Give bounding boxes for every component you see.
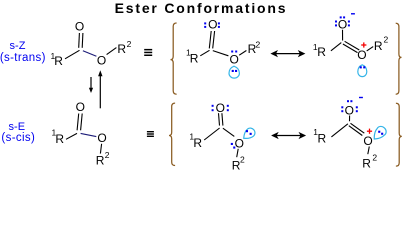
resonance form 2: C=O+ double bond bbox=[343, 41, 359, 52]
resonance form 1: bond R1-C bbox=[200, 50, 209, 56]
svg-text:R: R bbox=[193, 136, 202, 150]
resonance form 2: label R2 bbox=[374, 35, 389, 53]
s-E ester: label 1R bbox=[52, 128, 65, 146]
svg-text:2: 2 bbox=[240, 155, 245, 165]
resonance form 2 (top): label 1R bbox=[313, 42, 326, 59]
svg-text:O: O bbox=[97, 54, 106, 68]
resonance form 2: plus charge (red) bbox=[361, 42, 366, 47]
resonance form 3: label R2 bbox=[232, 155, 245, 173]
resonance form 3: bond O-R2 bbox=[237, 149, 239, 157]
s-Z ester: bond O-R2 bbox=[107, 48, 117, 55]
resonance form 3: C=O double bond bbox=[219, 113, 223, 125]
svg-text:2: 2 bbox=[372, 152, 377, 162]
resonance form 2: minus charge bbox=[351, 13, 355, 14]
resonance form 2: bond O-R2 bbox=[367, 47, 374, 51]
svg-text:2: 2 bbox=[127, 39, 132, 49]
svg-text:O: O bbox=[363, 134, 372, 148]
closing brace (top row) bbox=[396, 23, 402, 94]
svg-text:R: R bbox=[374, 39, 383, 53]
svg-text:(s-trans): (s-trans) bbox=[0, 52, 46, 64]
svg-text:R: R bbox=[55, 132, 64, 146]
resonance form 3: lone pair dots lower-left of ester O bbox=[231, 143, 236, 149]
svg-text:O: O bbox=[230, 53, 239, 67]
svg-text:2: 2 bbox=[256, 39, 261, 49]
resonance form 1: bond O-R2 bbox=[239, 51, 246, 56]
equilibrium arrow up bbox=[98, 70, 102, 108]
s-E ester: bond O-R2 bbox=[100, 144, 101, 154]
resonance form 3: highlighted lone pair (cyan, tilted) upper-right of ester O bbox=[241, 126, 257, 142]
svg-text:O: O bbox=[76, 100, 85, 114]
s-Z ester: label R2 bbox=[117, 39, 131, 56]
svg-text:O: O bbox=[338, 17, 347, 31]
s-Z ester: C=O double bond bbox=[79, 33, 83, 48]
s-E ester: label R2 bbox=[96, 150, 110, 168]
resonance form 4: lone pair dots on top O bbox=[341, 100, 358, 112]
s-E ester: C=O double bond bbox=[77, 114, 82, 131]
svg-text:R: R bbox=[117, 42, 126, 56]
resonance form 2: bond R1-C bbox=[331, 43, 341, 51]
resonance form 3: C-O single bond bbox=[223, 128, 234, 136]
resonance form 4: plus charge (red) bbox=[367, 129, 372, 134]
resonance form 4: bond O-R2 bbox=[368, 147, 370, 155]
resonance arrow (top) bbox=[270, 50, 305, 57]
svg-text:(s-cis): (s-cis) bbox=[1, 132, 35, 144]
resonance form 2: lone pair dots on top O bbox=[335, 16, 350, 26]
svg-text:O: O bbox=[97, 131, 106, 145]
resonance form 4: bond R1-C bbox=[331, 124, 348, 137]
svg-text:O: O bbox=[235, 137, 244, 151]
svg-text:Ester Conformations: Ester Conformations bbox=[115, 0, 288, 16]
resonance form 4: highlighted lone pair (cyan, tilted) upper-right of O+ bbox=[370, 124, 388, 142]
resonance form 1: lone pair dots above ester O bbox=[231, 51, 237, 53]
svg-text:R: R bbox=[317, 45, 326, 59]
resonance form 1: highlighted lone pair (cyan) below ester O bbox=[229, 66, 239, 78]
resonance form 3 (bottom): label 1R bbox=[189, 131, 202, 150]
opening brace (top row) bbox=[171, 23, 177, 94]
resonance form 4: C=O+ double bond bbox=[349, 123, 365, 135]
resonance form 1: lone pair dots on carbonyl O bbox=[204, 22, 220, 28]
s-Z ester: C-O single bond (navy highlight) bbox=[83, 51, 97, 56]
svg-text:2: 2 bbox=[105, 150, 110, 160]
s-Z ester: label 1R bbox=[51, 51, 64, 68]
svg-text:s-Z: s-Z bbox=[10, 40, 26, 52]
resonance form 4: label R2 bbox=[362, 152, 377, 170]
svg-text:O: O bbox=[216, 101, 225, 115]
svg-text:2: 2 bbox=[384, 35, 389, 45]
svg-text:R: R bbox=[96, 154, 105, 168]
opening brace (bottom row) bbox=[169, 103, 175, 165]
resonance form 4: bond O-C bbox=[349, 116, 351, 122]
resonance form 3: bond R1-C bbox=[204, 128, 219, 140]
svg-text:R: R bbox=[190, 51, 199, 65]
svg-text:O: O bbox=[208, 18, 217, 32]
identity symbol (bottom) bbox=[147, 131, 154, 137]
s-E ester: bond R1-C bbox=[66, 133, 77, 139]
resonance form 3: lone pair dots on carbonyl O bbox=[212, 105, 229, 111]
closing brace (bottom row) bbox=[396, 103, 402, 166]
resonance form 4: minus charge bbox=[359, 97, 363, 98]
resonance form 1: C-O single bond bbox=[213, 51, 229, 56]
resonance form 2: highlighted lone pair (cyan) below O+ bbox=[358, 65, 367, 77]
resonance arrow (bottom) bbox=[271, 132, 306, 139]
svg-text:R: R bbox=[318, 131, 327, 145]
svg-text:O: O bbox=[75, 20, 84, 34]
resonance form 2: bond O-C bbox=[342, 30, 344, 41]
svg-text:R: R bbox=[54, 54, 63, 68]
equilibrium arrow down bbox=[89, 77, 93, 93]
svg-text:R: R bbox=[362, 157, 371, 171]
svg-text:O: O bbox=[357, 48, 366, 62]
resonance form 1: label R2 bbox=[248, 39, 261, 56]
s-E ester: C-O single bond (navy highlight) bbox=[81, 133, 97, 136]
svg-text:O: O bbox=[345, 103, 354, 117]
s-Z ester: bond R1-C bbox=[65, 50, 80, 59]
resonance form 4 (bottom): label 1R bbox=[313, 127, 326, 145]
identity symbol (top) bbox=[144, 49, 152, 56]
resonance form 1 (top): label 1R bbox=[186, 48, 199, 66]
resonance form 1: C=O double bond bbox=[209, 31, 214, 48]
